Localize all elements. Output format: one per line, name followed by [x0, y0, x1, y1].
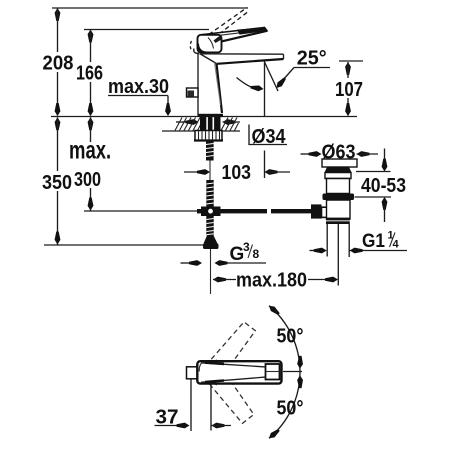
svg-text:103: 103 [222, 161, 252, 184]
svg-text:max.180: max.180 [236, 269, 307, 292]
svg-text:107: 107 [335, 78, 363, 101]
svg-text:25°: 25° [297, 47, 327, 70]
svg-text:166: 166 [76, 62, 103, 85]
svg-text:Ø34: Ø34 [252, 125, 287, 148]
svg-text:50°: 50° [277, 325, 304, 348]
svg-text:max.: max. [69, 136, 111, 164]
svg-text:G1: G1 [362, 231, 385, 252]
svg-text:350: 350 [42, 171, 72, 194]
svg-text:3: 3 [243, 240, 250, 254]
svg-text:40-53: 40-53 [361, 174, 406, 197]
svg-text:8: 8 [253, 247, 260, 261]
svg-text:300: 300 [74, 168, 101, 191]
svg-text:208: 208 [43, 52, 74, 75]
svg-text:max.30: max.30 [108, 75, 169, 98]
svg-text:4: 4 [393, 239, 400, 251]
svg-text:50°: 50° [277, 397, 304, 420]
